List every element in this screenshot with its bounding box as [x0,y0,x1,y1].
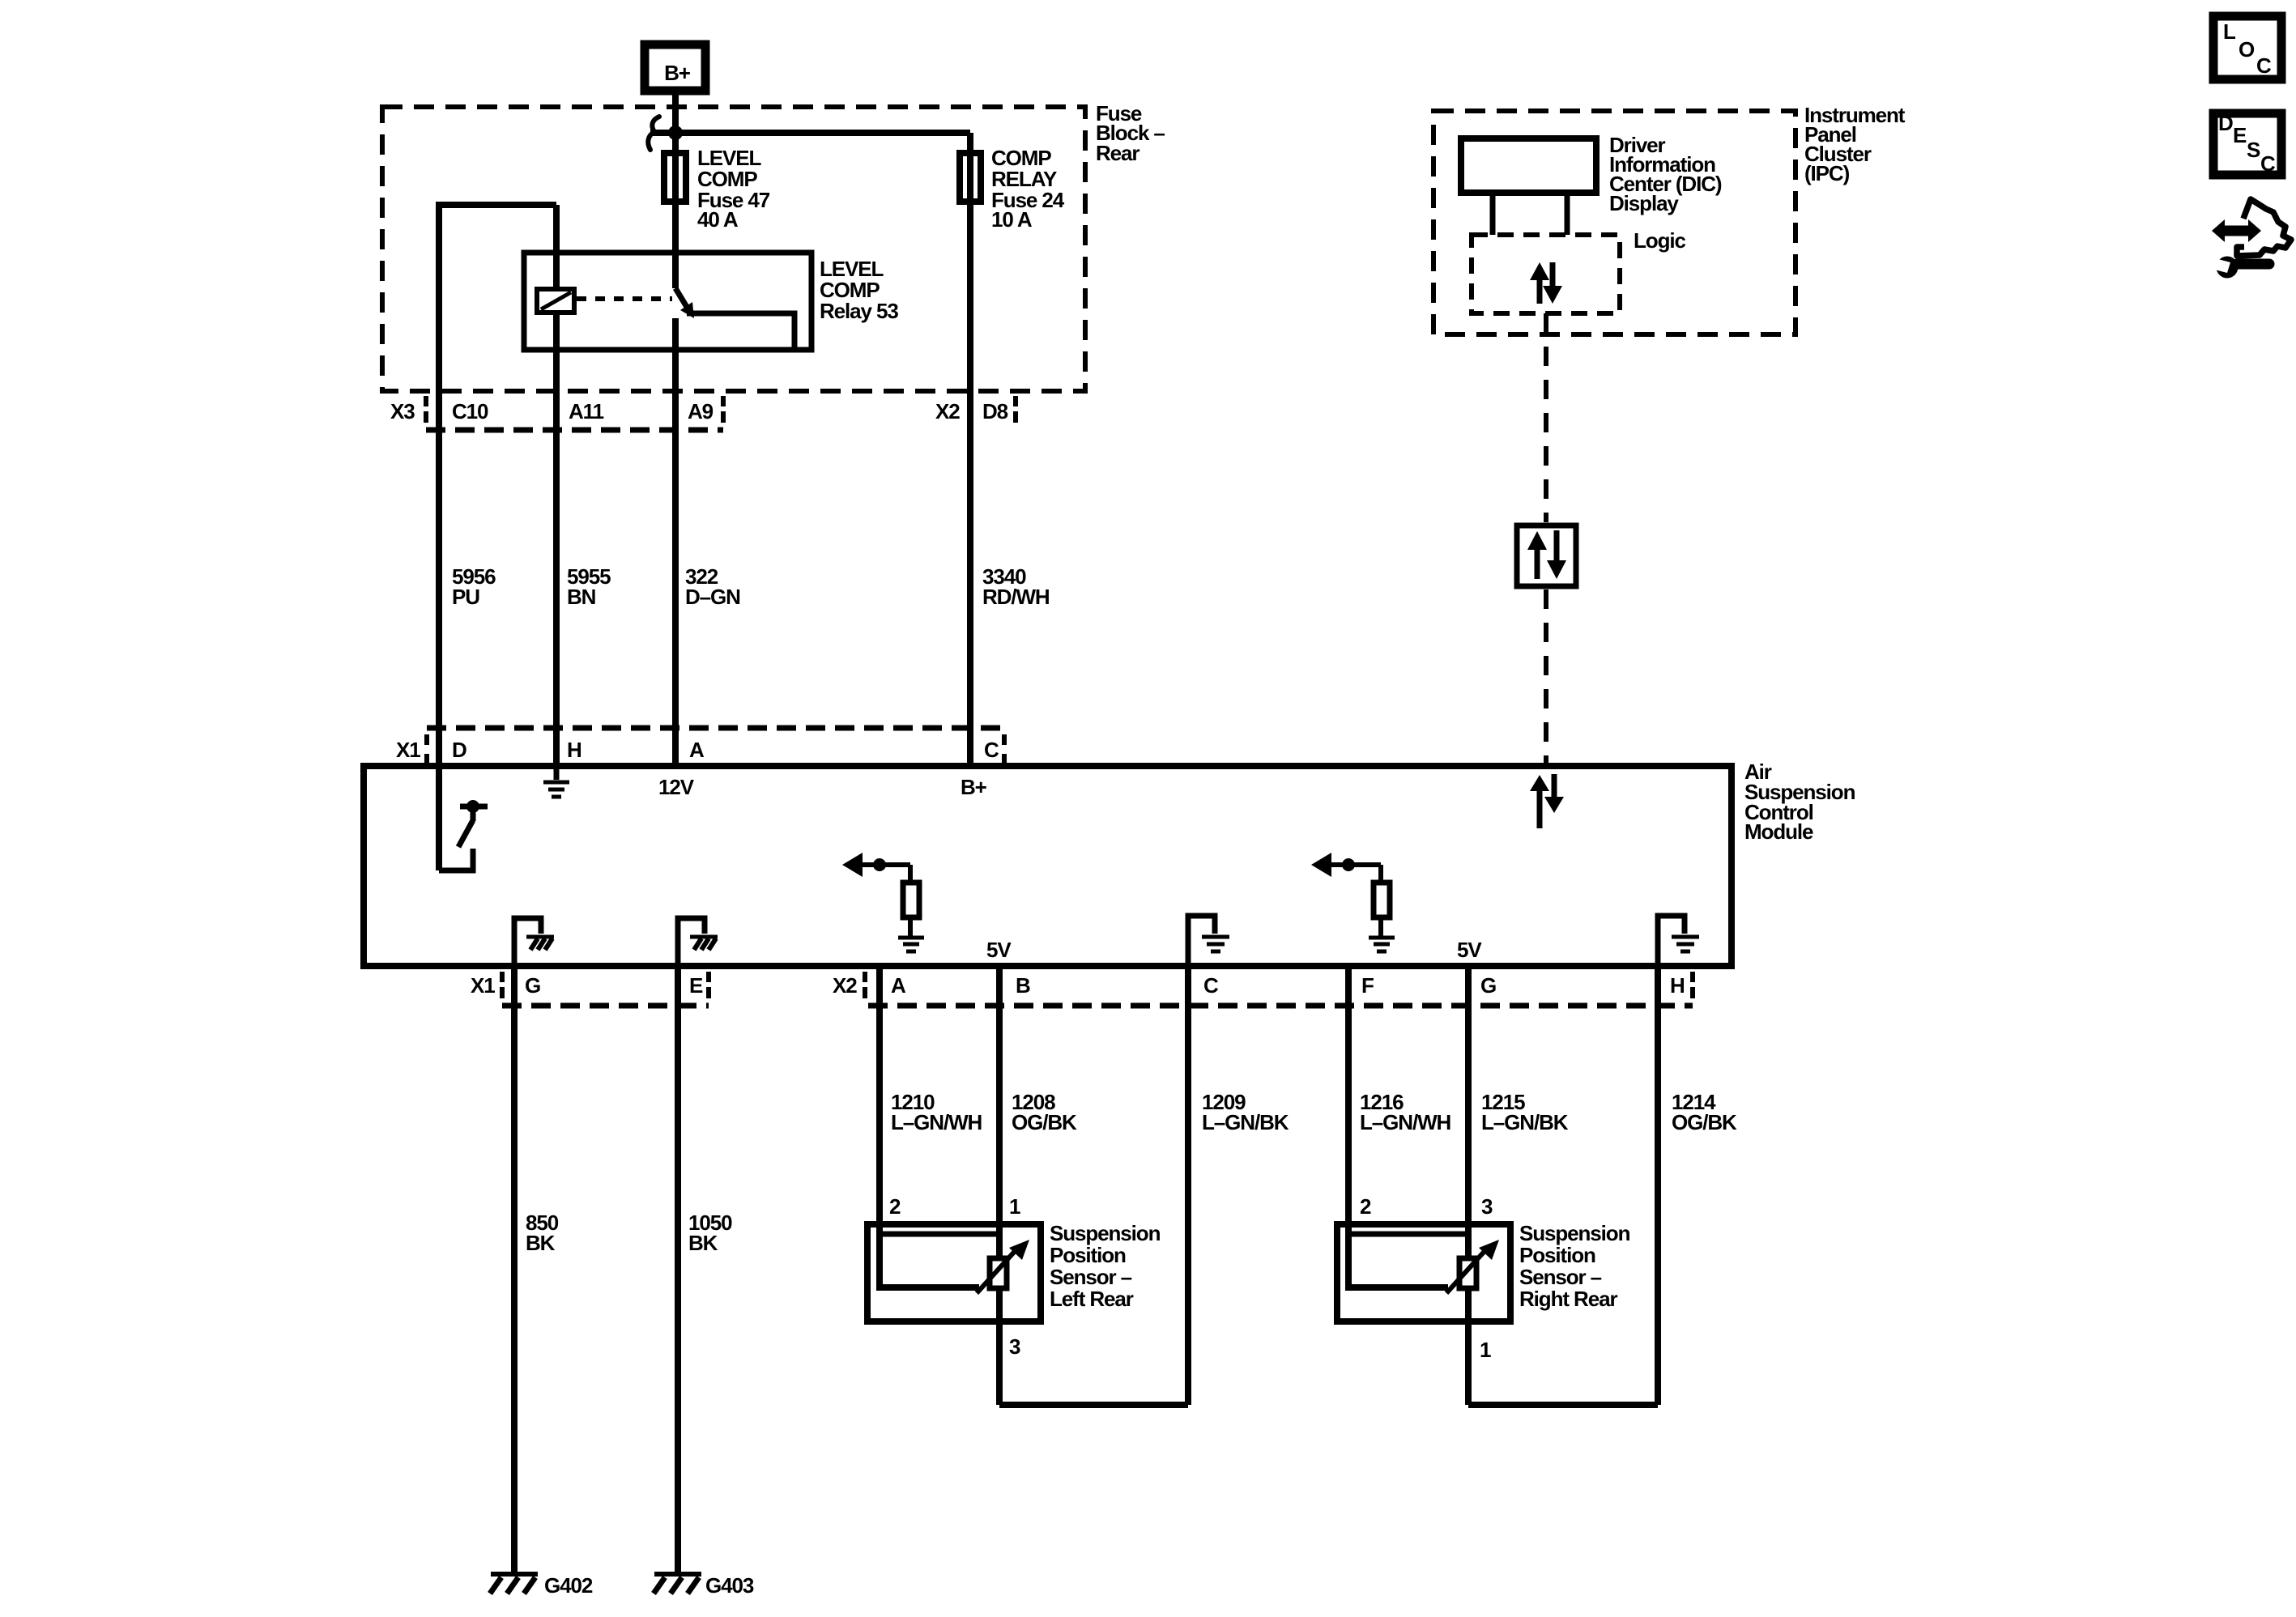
svg-text:C: C [2260,151,2276,176]
signal ground at module pin H [543,766,569,797]
suspension position sensor right rear box [1337,1221,1630,1321]
wire left sensor pin 3 to X2-C [999,1402,1188,1408]
svg-text:X2: X2 [833,973,857,998]
svg-text:D: D [452,738,466,762]
wire pin E to ground G403 [675,966,681,1572]
relay switch blade with arrowhead [675,288,694,318]
svg-text:L: L [2223,19,2236,44]
svg-text:RD/WH: RD/WH [982,585,1050,609]
wire label 1210 L-GN/WH [891,1090,982,1134]
svg-text:D8: D8 [982,399,1008,423]
connector X1 top strip of module [396,728,1004,764]
svg-text:(IPC): (IPC) [1804,161,1850,185]
dashed serial data line serial data box to module [1544,589,1548,766]
dashed serial data line logic box to serial data box [1544,313,1548,522]
svg-text:1: 1 [1009,1194,1020,1219]
svg-text:BN: BN [567,585,596,609]
label Fuse Block Rear [1096,101,1165,165]
svg-text:OG/BK: OG/BK [1672,1110,1737,1134]
wire label 322 D-GN [685,564,740,609]
suspension position sensor left rear box [867,1221,1161,1321]
instrument panel cluster IPC dashed box [1433,103,1906,334]
wire A9 relay switch output down to module pin X1-A [672,318,679,766]
relay LEVEL COMP Relay 53 outline [524,253,898,350]
svg-text:Rear: Rear [1096,141,1139,165]
wire X2-B to left sensor pin 1 and pin 3 down [996,966,1003,1405]
svg-text:L–GN/WH: L–GN/WH [1360,1110,1451,1134]
svg-text:L–GN/BK: L–GN/BK [1202,1110,1289,1134]
svg-text:Suspension: Suspension [1519,1221,1630,1245]
wire C10 from relay coil return to module pin X1-D [439,205,556,870]
connector X2 bottom strip of module [833,972,1693,1006]
wire D8 COMP RELAY fuse output down to module pin X1-C [967,133,973,766]
svg-text:F: F [1361,973,1374,998]
LOC icon box top right [2213,16,2281,79]
internal switch at module pin D [439,800,488,870]
svg-text:H: H [1670,973,1685,998]
svg-text:S: S [2247,138,2260,162]
wire label 1209 L-GN/BK [1202,1090,1289,1134]
svg-text:10 A: 10 A [991,207,1033,232]
wire label 5956 PU [452,564,496,609]
svg-text:B+: B+ [664,61,691,85]
fuse F24 COMP RELAY Fuse 24 10A [960,146,1065,232]
svg-text:12V: 12V [658,775,695,799]
svg-text:C: C [2256,53,2272,78]
fuse F47 LEVEL COMP Fuse 47 40A [664,146,770,232]
svg-text:B: B [1016,973,1030,998]
wire label 1050 BK [688,1211,732,1255]
svg-text:Relay 53: Relay 53 [820,299,898,323]
svg-text:BK: BK [526,1231,556,1255]
wire DIC display right leg [1565,193,1570,235]
connector end view icon with double arrow and wrench [2212,199,2291,279]
DESC icon box top right [2213,111,2281,176]
fuse block rear dashed border [382,107,1085,391]
svg-text:A11: A11 [569,399,604,423]
5V reference arrow and pull-up resistor at module pin A [842,853,924,951]
wire label 5955 BN [567,564,611,609]
wire label 3340 RD/WH [982,564,1050,609]
svg-text:3: 3 [1009,1334,1020,1359]
svg-text:A: A [689,738,705,762]
battery terminal B+ box [645,45,705,91]
svg-text:G402: G402 [544,1573,593,1598]
svg-text:A9: A9 [688,399,714,423]
wire label 1208 OG/BK [1012,1090,1077,1134]
svg-text:5V: 5V [986,938,1012,962]
5V reference arrow and pull-up resistor at module pin F [1311,853,1395,951]
svg-text:1: 1 [1480,1338,1491,1362]
svg-text:Left Rear: Left Rear [1050,1287,1134,1311]
svg-text:C: C [984,738,999,762]
svg-text:Sensor –: Sensor – [1519,1265,1602,1289]
wire X2-H down [1655,966,1661,1405]
wire junction to Fuse 24 horizontal [650,130,970,136]
connector X1 bottom strip of module [471,972,709,1006]
wire pin G to ground G402 [511,966,518,1572]
svg-text:2: 2 [889,1194,901,1219]
svg-text:G403: G403 [705,1573,754,1598]
wire label 1216 L-GN/WH [1360,1090,1451,1134]
driver information center DIC display box [1461,133,1722,215]
svg-text:X1: X1 [471,973,495,998]
svg-text:H: H [567,738,581,762]
wire X2-C down [1185,966,1191,1405]
svg-text:5V: 5V [1457,938,1482,962]
clip symbol at B+ junction [648,117,659,150]
svg-text:L–GN/WH: L–GN/WH [891,1110,982,1134]
serial data arrows inside module [1530,774,1564,828]
signal ground at module pin C [1188,916,1229,963]
svg-text:D: D [2218,111,2233,135]
relay coil [537,289,574,313]
signal ground at module pin H [1658,916,1699,963]
svg-text:G: G [525,973,540,998]
svg-text:L–GN/BK: L–GN/BK [1481,1110,1569,1134]
svg-text:PU: PU [452,585,479,609]
svg-text:O: O [2238,37,2255,62]
svg-text:OG/BK: OG/BK [1012,1110,1077,1134]
left sensor potentiometer [977,1240,1029,1293]
svg-text:G: G [1480,973,1496,998]
air suspension control module box [364,760,1855,966]
svg-text:E: E [2233,123,2247,147]
wire DIC display left leg [1490,193,1496,235]
wire label 1214 OG/BK [1672,1090,1737,1134]
serial data arrows inside logic box [1530,262,1562,304]
IPC logic dashed box [1472,228,1685,313]
wire X2-F to right sensor pin 2 [1348,966,1448,1287]
wire label 850 BK [526,1211,559,1255]
ground G403 [654,1573,754,1598]
ground G402 [490,1573,593,1598]
connector X2-D8 labels of fuse block [935,396,1016,423]
svg-text:X3: X3 [390,399,415,423]
svg-text:X2: X2 [935,399,960,423]
svg-text:X1: X1 [396,738,420,762]
svg-text:B+: B+ [961,775,987,799]
wire X2-G to right sensor pin 3 and pin 1 down [1465,966,1472,1405]
serial data interface box with arrows [1517,526,1576,586]
relay actuation dashed line [577,296,672,301]
svg-text:Module: Module [1744,819,1813,844]
svg-text:BK: BK [688,1231,718,1255]
svg-text:C10: C10 [452,399,488,423]
wire right sensor pin 1 to X2-H [1468,1402,1658,1408]
relay switch contact bar [687,313,794,349]
wire A11 relay coil feed down to module pin X1-H [553,205,560,766]
svg-text:Position: Position [1519,1243,1595,1267]
chassis ground inside module at pin E [678,918,718,963]
svg-text:40 A: 40 A [697,207,739,232]
wire X2-A to left sensor pin 2 [880,966,979,1287]
svg-text:Logic: Logic [1634,228,1685,253]
right sensor potentiometer [1446,1240,1499,1293]
junction dot at B+ feed [668,126,683,140]
svg-text:E: E [689,973,703,998]
svg-text:2: 2 [1360,1194,1371,1219]
connector X3 strip of fuse block [390,396,723,430]
wire B+ feed down from B+ terminal through Fuse 47 to relay switch [672,89,679,288]
wire label 1215 L-GN/BK [1481,1090,1569,1134]
svg-text:Right Rear: Right Rear [1519,1287,1617,1311]
svg-text:3: 3 [1481,1194,1493,1219]
svg-text:A: A [891,973,906,998]
svg-text:Display: Display [1609,191,1679,215]
svg-text:D–GN: D–GN [685,585,740,609]
svg-text:C: C [1203,973,1219,998]
svg-text:Suspension: Suspension [1050,1221,1161,1245]
svg-text:Sensor –: Sensor – [1050,1265,1132,1289]
svg-text:Position: Position [1050,1243,1126,1267]
chassis ground inside module at pin G [514,918,554,963]
